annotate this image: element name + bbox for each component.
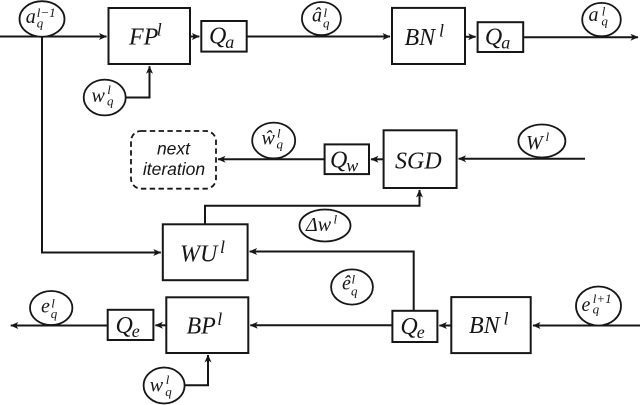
svg-text:FP: FP: [128, 25, 159, 51]
block Q_e (error quantizer, left): [108, 310, 154, 341]
block BN^l (bottom): [451, 297, 530, 353]
block next iteration (dashed): [131, 131, 216, 189]
wire BN^l to Q_e: [439, 325, 451, 327]
block Q_a (activation quantizer, output): [478, 22, 524, 52]
svg-text:q: q: [601, 14, 608, 29]
svg-text:Q: Q: [400, 314, 417, 340]
node ê_q^l: [331, 269, 373, 304]
svg-text:SGD: SGD: [395, 149, 442, 175]
wire w_q^l into FP^l bottom: [126, 66, 150, 97]
svg-text:w: w: [92, 85, 106, 107]
svg-text:l: l: [157, 19, 162, 39]
svg-text:e: e: [582, 294, 591, 316]
wire WU^l up to SGD bottom with node Δw^l: [205, 190, 420, 224]
wire Q_w to next-iteration box with node ŵ_q^l: [218, 158, 325, 160]
wire Q_e to BP^l: [250, 324, 392, 326]
svg-text:l: l: [334, 212, 338, 227]
svg-text:q: q: [51, 306, 58, 321]
svg-text:a: a: [589, 4, 599, 26]
wire Q_e up into WU^l right with node ê_q^l: [250, 252, 414, 311]
svg-text:next: next: [157, 139, 191, 159]
svg-text:q: q: [165, 384, 172, 399]
svg-text:Q: Q: [330, 148, 347, 174]
svg-text:e: e: [132, 321, 140, 341]
wire input e_q^{l+1} into BN^l bottom: [533, 325, 640, 327]
svg-text:e: e: [417, 322, 425, 342]
svg-text:ŵ: ŵ: [262, 128, 276, 150]
block Q_a (activation quantizer, forward): [201, 21, 246, 52]
svg-text:q: q: [351, 284, 358, 299]
svg-text:l: l: [546, 129, 550, 144]
wire w_q^l into BP^l bottom: [185, 355, 208, 385]
svg-text:q: q: [277, 137, 284, 152]
wire junction at a_q^{l-1} down and into WU^l left: [42, 37, 161, 253]
svg-text:Δw: Δw: [305, 214, 332, 236]
svg-text:WU: WU: [180, 242, 219, 268]
svg-text:l: l: [217, 309, 222, 329]
node â_q^l: [302, 2, 341, 35]
block WU^l (weight update): [163, 224, 248, 280]
svg-text:BN: BN: [469, 313, 502, 339]
block Q_e (error quantizer, right): [392, 311, 437, 342]
block FP^l: [109, 8, 191, 64]
svg-text:W: W: [526, 132, 545, 154]
svg-text:q: q: [323, 15, 330, 30]
svg-text:iteration: iteration: [143, 159, 205, 179]
svg-text:a: a: [501, 33, 510, 53]
node ŵ_q^l: [252, 123, 295, 159]
node w_q^l (weights into BP): [144, 368, 185, 404]
svg-text:e: e: [41, 296, 50, 318]
wire BP^l to Q_e: [155, 324, 166, 326]
svg-text:l: l: [439, 21, 444, 41]
svg-text:w: w: [150, 374, 164, 396]
block BN^l (top): [392, 8, 465, 64]
svg-text:a: a: [225, 32, 234, 52]
wire Q_e to output e_q^l: [11, 325, 108, 327]
svg-text:q: q: [37, 16, 44, 31]
svg-text:Q: Q: [116, 313, 133, 339]
wire SGD to Q_w: [371, 158, 384, 160]
node a_q^l: [582, 3, 621, 36]
svg-text:â: â: [312, 5, 322, 27]
wire Q_a to BN^l with node â_q^l: [247, 36, 390, 38]
svg-text:BN: BN: [405, 25, 438, 51]
node e_q^{l+1}: [576, 287, 621, 326]
svg-text:q: q: [107, 94, 114, 109]
svg-text:l: l: [504, 309, 509, 329]
block Q_w (weight quantizer): [325, 144, 369, 175]
wire Q_a to output a_q^l: [523, 36, 638, 38]
svg-text:BP: BP: [187, 314, 217, 340]
svg-text:q: q: [593, 302, 600, 317]
svg-text:ê: ê: [342, 273, 351, 295]
wire input a_q^{l-1} to FP^l: [0, 36, 107, 38]
block BP^l: [166, 297, 248, 353]
wire W^l input into SGD: [459, 158, 585, 160]
wire FP^l to Q_a: [190, 36, 199, 38]
block SGD: [384, 130, 457, 188]
node w_q^l (weights into FP): [84, 80, 126, 116]
svg-text:Q: Q: [485, 25, 502, 51]
node Δw^l: [300, 210, 351, 242]
svg-text:l: l: [220, 237, 225, 257]
node W^l: [518, 125, 565, 158]
svg-text:a: a: [26, 6, 36, 28]
wire BN^l to Q_a: [465, 36, 476, 38]
svg-text:w: w: [346, 156, 358, 176]
node a_q^{l-1}: [20, 1, 65, 37]
svg-text:Q: Q: [209, 24, 226, 50]
node e_q^l: [30, 291, 72, 325]
